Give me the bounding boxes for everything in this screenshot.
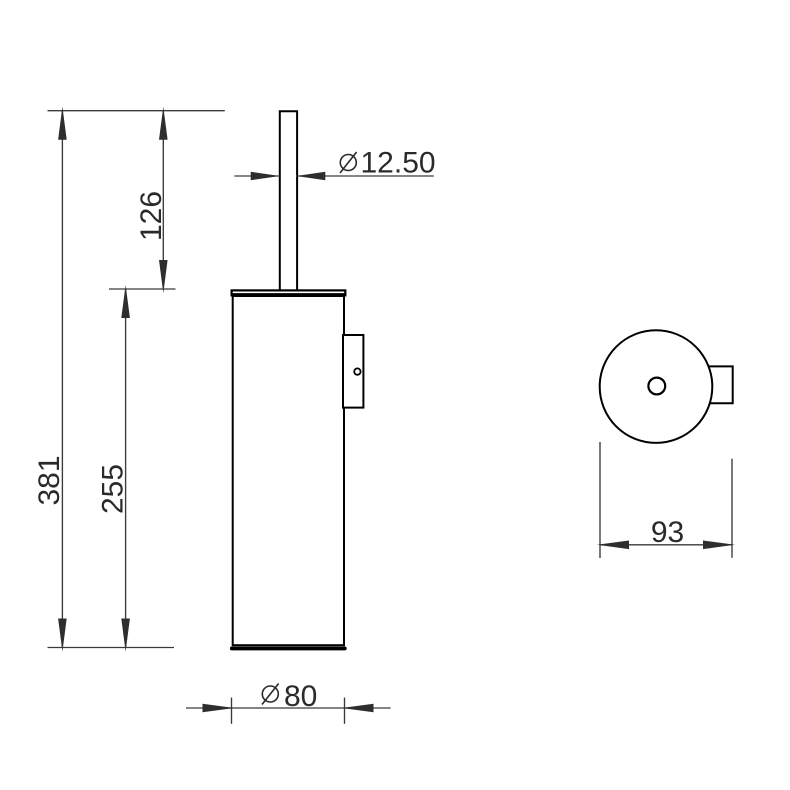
handle rod (front view) [280,111,297,290]
top extension line [48,110,225,112]
svg-text:255: 255 [96,464,129,514]
bottom rim [230,647,347,651]
dia 80 tick left [231,698,233,724]
arrow 381 top [58,107,67,140]
lid outline [232,290,346,294]
dia 12.50 dim line right [296,175,434,177]
dim line 255 [125,289,127,648]
arrow 12.50 right [296,172,325,181]
arrow 381 bottom [58,619,67,652]
dia 80 tick right [344,698,346,724]
arrow 255 bottom [121,619,130,652]
body cylinder (front view) [233,296,344,645]
svg-text:12.50: 12.50 [361,147,436,180]
arrow 255 top [121,285,130,318]
middle extension line [109,288,176,290]
dim line 126 [162,111,164,289]
arrow 80 right [342,704,374,713]
arrow 93 right [703,541,735,550]
top view center hole [648,378,665,395]
arrow 93 left [597,541,629,550]
dim line 381 [61,111,63,648]
dim line 93 [600,544,732,546]
screw hole [354,368,360,374]
svg-text:126: 126 [135,191,168,241]
top view circle [600,330,713,443]
93 extension line left [599,442,601,558]
arrow 126 top [159,107,168,140]
svg-text:80: 80 [284,680,317,713]
diameter symbol 80 [262,684,279,705]
top view wall tab [708,366,732,403]
bottom extension line [48,647,175,649]
diameter symbol 12.50 [340,152,357,173]
lid bottom bar [231,293,347,296]
93 extension line right [731,459,733,558]
dia 12.50 dim line left [234,175,279,177]
arrow 126 bottom [159,260,168,293]
svg-text:381: 381 [33,455,66,505]
arrow 80 left [203,704,235,713]
dia 80 dim line [186,707,391,709]
svg-text:93: 93 [651,516,684,549]
wall bracket (front view) [343,335,363,408]
arrow 12.50 left [251,172,280,181]
